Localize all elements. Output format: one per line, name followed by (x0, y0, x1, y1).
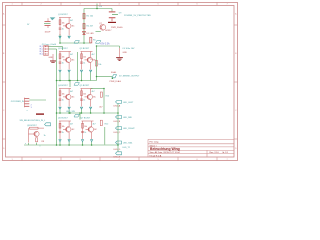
wire bottom gnd rail (24, 144, 118, 146)
svg-text:Q3 BC817: Q3 BC817 (80, 48, 91, 50)
svg-text:GND_SW: GND_SW (66, 111, 75, 113)
svg-text:1k: 1k (62, 132, 64, 134)
svg-text:Q6 BC817: Q6 BC817 (58, 117, 69, 119)
svg-text:LED_T2: LED_T2 (123, 147, 131, 149)
junction C2 collector (103, 88, 105, 90)
svg-text:D1 LED: D1 LED (87, 33, 95, 35)
title block rev text (210, 152, 220, 154)
svg-text:FLAG: FLAG (111, 71, 117, 74)
svg-text:LED_D: LED_D (114, 149, 121, 151)
wire Q8 emitter stub (28, 143, 30, 145)
svg-text:Rev: V1.0: Rev: V1.0 (210, 152, 220, 154)
svg-text:1k: 1k (62, 63, 64, 65)
wire J3 out (29, 99, 46, 101)
transistor stage Q7b (81, 117, 98, 141)
border zone letters (3, 4, 237, 161)
svg-text:SW_BELEUCHTUNG_IN_L: SW_BELEUCHTUNG_IN_L (20, 120, 47, 122)
svg-text:R10: R10 (106, 95, 109, 97)
hierarchical label SW_C (114, 127, 136, 134)
junction sense branch (96, 76, 98, 78)
wire Q7b cap stub (91, 142, 93, 145)
svg-text:1k: 1k (44, 135, 46, 137)
wire row4 stub (79, 113, 81, 120)
transistor stage Q3 (80, 48, 97, 72)
transistor stage Q4 (58, 85, 75, 109)
power flag mid right (110, 71, 141, 83)
svg-text:2: 2 (31, 104, 32, 106)
svg-text:R2 4k7: R2 4k7 (87, 26, 94, 28)
svg-text:Q7 BC817: Q7 BC817 (81, 117, 92, 119)
junction row3 e (56, 112, 58, 114)
wire 5V horizontal right (97, 45, 120, 47)
wire 5V horizontal left (60, 42, 91, 44)
label net row3 (66, 111, 75, 113)
svg-text:10k: 10k (83, 57, 86, 59)
title block sheet text (150, 144, 158, 147)
junction C2 rail (103, 112, 105, 114)
wire A1 stub (59, 34, 61, 43)
resistor R10 (99, 92, 109, 109)
junction row4 d (91, 144, 93, 146)
junction row2 e (56, 80, 58, 82)
svg-text:4k7: 4k7 (70, 124, 73, 126)
wire top horizontal (84, 8, 112, 10)
wire row3 stub (69, 81, 71, 88)
diode D1 (83, 32, 95, 36)
title block title text (150, 147, 180, 151)
connector J1 (39, 44, 57, 56)
wire left vertical rail (56, 49, 58, 145)
label LED_T2 (123, 147, 131, 149)
wire Q2 emitter stub (59, 73, 61, 81)
svg-text:4k7: 4k7 (93, 124, 96, 126)
junction row3 stub (69, 80, 71, 82)
svg-text:LED_B: LED_B (114, 121, 121, 123)
svg-text:10k: 10k (98, 64, 101, 66)
junction row4 a (59, 144, 61, 146)
junction row3 b (68, 112, 70, 114)
junction bus at rail (83, 42, 85, 44)
svg-text:1k: 1k (62, 29, 64, 31)
junction bottom left (56, 144, 58, 146)
wire Q2 cap stub (68, 73, 70, 81)
title block id text (222, 152, 228, 154)
svg-text:4k7: 4k7 (70, 54, 73, 56)
resistor R12 (100, 120, 109, 125)
transistor stage Q1 (58, 14, 75, 38)
capacitor C1 (44, 17, 55, 33)
wire C2 collector right (91, 88, 104, 90)
transistor stage Q8 (25, 123, 51, 148)
svg-text:R1 10k: R1 10k (87, 16, 95, 18)
svg-text:Q4 BC817: Q4 BC817 (58, 85, 69, 87)
svg-text:File: wing: File: wing (150, 142, 160, 144)
junction row34 b (79, 112, 81, 114)
label long net bottom left (20, 120, 47, 122)
net flag row4 (74, 114, 79, 117)
hierarchical label SW_B (114, 116, 133, 123)
svg-text:LED_A: LED_A (114, 105, 121, 108)
svg-text:C4 100n 16V: C4 100n 16V (122, 48, 135, 50)
wire Q5 cap stub (90, 110, 92, 114)
svg-text:IN_4: IN_4 (39, 54, 43, 56)
svg-text:10k: 10k (84, 126, 87, 128)
bar NC mark (36, 113, 44, 114)
svg-text:1k: 1k (62, 100, 64, 102)
svg-text:4k7: 4k7 (70, 91, 73, 93)
wire row3 gnd rail (57, 112, 119, 114)
svg-text:PWR_FLAG: PWR_FLAG (111, 26, 123, 29)
svg-text:v: v (40, 145, 41, 147)
svg-text:3: 3 (31, 107, 32, 109)
transistor stage Q5 (80, 85, 97, 109)
wire row2 right vert (96, 46, 98, 81)
svg-text:4k7: 4k7 (92, 91, 95, 93)
net flag row2 left (74, 41, 79, 44)
svg-text:Q2 BC817: Q2 BC817 (58, 48, 69, 50)
wire top power stub (96, 4, 98, 9)
junction row3 a (59, 112, 61, 114)
wire esd drop (111, 9, 113, 12)
wire Q7 emitter (96, 31, 101, 33)
label +5V rail (100, 42, 110, 45)
junction top bus (96, 8, 98, 10)
ground right of 5V rail (116, 52, 127, 61)
connector J3 (11, 98, 32, 112)
esd diode D9 with ground (108, 11, 151, 23)
wire C2 collector down (103, 89, 105, 114)
hierarchical label SW_A (114, 100, 135, 107)
label small near C1 (27, 24, 30, 26)
junction right rail (117, 112, 119, 114)
sheet inner border (6, 6, 235, 158)
svg-text:KiCad E.D.A.: KiCad E.D.A. (150, 154, 163, 157)
ground J1 (49, 54, 57, 63)
label PWR_FLAG top (111, 26, 123, 29)
wire Q3 emitter stub (81, 73, 83, 81)
svg-text:Size: A4 Date: 2023-07-27 12:: Size: A4 Date: 2023-07-27 12:04 (150, 151, 181, 154)
title block kicad text (150, 154, 163, 157)
svg-text:LED_MID: LED_MID (123, 117, 133, 119)
transistor stage Q6 (58, 117, 75, 141)
sheet outer border (3, 3, 238, 161)
resistor R1 (83, 14, 94, 19)
resistor R9 (90, 59, 101, 66)
resistor R2 (83, 24, 94, 29)
wire J1 pin1 (48, 47, 62, 51)
svg-text:LED_RIGHT: LED_RIGHT (123, 128, 135, 130)
svg-text:Q8 BC817: Q8 BC817 (27, 125, 38, 127)
junction row4 c (82, 144, 84, 146)
svg-text:GND: GND (123, 52, 128, 54)
transistor Q7 (99, 23, 112, 32)
wire Q6 emitter stub (59, 142, 61, 145)
junction bottom rail (117, 144, 119, 146)
svg-text:1k: 1k (83, 63, 85, 65)
hierarchical label SW_E (114, 152, 122, 159)
svg-text:POWER_5V_PROTECTED: POWER_5V_PROTECTED (124, 15, 151, 17)
wire main vertical bus (83, 9, 85, 44)
svg-text:Q1 BC817: Q1 BC817 (58, 14, 69, 16)
junction 5V right (96, 45, 98, 47)
junction row2 c (68, 80, 70, 82)
wire Q3 cap stub (90, 73, 92, 81)
resistor R5 (90, 37, 97, 43)
hierarchical label SW_D (114, 141, 134, 151)
svg-text:LED_E: LED_E (114, 157, 121, 159)
junction A1 stub (59, 42, 61, 44)
junction row34 a (69, 112, 71, 114)
svg-text:Q5 BC817: Q5 BC817 (80, 85, 91, 87)
wire row2 mid vert (77, 52, 79, 81)
svg-text:Id: 1/1: Id: 1/1 (222, 152, 228, 154)
wire row2 gnd rail (57, 80, 97, 82)
svg-text:v: v (27, 110, 28, 112)
svg-text:v: v (25, 143, 26, 145)
svg-text:10k: 10k (62, 57, 65, 59)
title block file text (150, 142, 160, 144)
label +5V top (99, 6, 103, 8)
svg-text:LED_LEFT: LED_LEFT (123, 102, 134, 104)
svg-text:5V_SENSE_OUTPUT: 5V_SENSE_OUTPUT (119, 76, 140, 78)
wire D2 collector down (104, 127, 106, 145)
svg-text:4k7: 4k7 (92, 54, 95, 56)
svg-text:1k: 1k (83, 100, 85, 102)
net flag row2 right (96, 41, 101, 44)
svg-text:+5V 0.5A: +5V 0.5A (100, 42, 110, 45)
svg-text:4k7: 4k7 (70, 20, 73, 22)
title block box (148, 139, 234, 157)
wire Q4 emitter stub (59, 110, 61, 114)
wire Q7b emitter stub (82, 142, 84, 145)
svg-text:Beleuchtung Wing: Beleuchtung Wing (150, 147, 180, 151)
label C4 value (122, 48, 135, 50)
junction row4 b (68, 144, 70, 146)
svg-text:10k: 10k (62, 94, 65, 96)
svg-text:J3 POWER_IN: J3 POWER_IN (11, 101, 25, 103)
net flag row3 (74, 83, 79, 86)
wire right label vert (117, 104, 119, 152)
wire J1 pin2 to rail (48, 48, 56, 50)
svg-text:PWR_FLAG: PWR_FLAG (110, 80, 122, 83)
junction row3 d (90, 112, 92, 114)
junction row3 c (81, 112, 83, 114)
junction row2 rail a (59, 80, 61, 82)
svg-text:10k: 10k (62, 23, 65, 25)
svg-text:100nF: 100nF (45, 32, 52, 34)
svg-text:LED_TAIL: LED_TAIL (123, 142, 133, 145)
title block date text (150, 151, 181, 154)
svg-text:1k: 1k (84, 132, 86, 134)
svg-text:BC817: BC817 (105, 30, 112, 32)
wire Q4 cap stub (68, 110, 70, 114)
junction row2 d (81, 80, 83, 82)
junction row2 rail b (77, 80, 79, 82)
wire Q6 cap stub (68, 142, 70, 145)
border zone ticks (2, 2, 238, 161)
transistor stage Q2 (58, 48, 75, 72)
wire right gnd drop (119, 46, 121, 57)
wire Q5 emitter stub (81, 110, 83, 114)
svg-text:10k: 10k (83, 94, 86, 96)
svg-text:LED_C: LED_C (114, 132, 121, 134)
wire Q8 collector stub (36, 143, 38, 145)
wire 5V sense branch (97, 76, 113, 78)
svg-text:10k: 10k (62, 126, 65, 128)
